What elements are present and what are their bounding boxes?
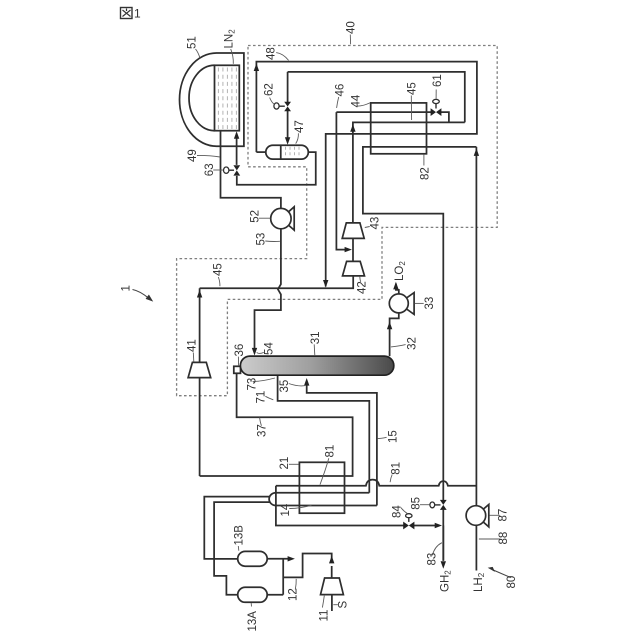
leader 32: [391, 345, 406, 347]
svg-text:45: 45: [407, 82, 419, 95]
valve 85: [440, 500, 447, 510]
leader 15: [378, 437, 387, 438]
leader 84: [401, 508, 408, 514]
leader 13A: [250, 603, 252, 606]
leader 81 upper: [320, 458, 329, 484]
wire valve 61 outlet branch: [441, 112, 449, 122]
leader 62: [270, 98, 275, 105]
arrow up on pump 33 outlet (LO2): [393, 282, 398, 290]
svg-text:S: S: [338, 601, 350, 609]
svg-text:13A: 13A: [247, 611, 259, 632]
svg-text:84: 84: [392, 505, 404, 518]
wire pipe from 13A loop into capsule 14 lower: [214, 502, 270, 595]
svg-text:71: 71: [256, 391, 268, 404]
leader 45 mid: [218, 277, 220, 286]
arrow up under pipe 44 corner: [350, 124, 355, 132]
svg-text:33: 33: [424, 297, 436, 310]
arrowheads: [197, 63, 479, 568]
arrow down on pipe 48 into separator line: [323, 280, 328, 288]
svg-text:87: 87: [498, 509, 510, 522]
svg-text:12: 12: [288, 588, 300, 601]
svg-text:41: 41: [187, 339, 199, 352]
leader 88: [479, 538, 500, 540]
svg-text:13B: 13B: [234, 525, 246, 546]
leader 63: [213, 169, 223, 171]
heat exchanger 45: [371, 103, 427, 154]
leader 85: [420, 504, 430, 506]
leader 48: [276, 53, 288, 61]
arrow up on pipe 48 riser: [254, 63, 259, 71]
wire pipe 46 downcomer and feed arrow run into 43-42 line: [336, 112, 345, 250]
wire expander 43 to 42 connector: [352, 238, 354, 261]
svg-text:48: 48: [265, 47, 277, 60]
leader 51: [196, 49, 200, 58]
svg-text:1: 1: [134, 7, 141, 21]
svg-text:85: 85: [411, 497, 423, 510]
arrow up under GH2 return line corner: [474, 148, 479, 156]
wire valve 62 to tank 47: [287, 72, 289, 138]
leader 82: [423, 155, 425, 166]
wire GH2 exit below junction: [442, 526, 444, 561]
leader S: [333, 604, 338, 606]
svg-text:21: 21: [279, 457, 291, 470]
leader 36: [237, 357, 239, 366]
wire compressor 52 outlet with crossover jog, to vessel 31 top arrow 54: [255, 229, 281, 349]
svg-text:15: 15: [388, 430, 400, 443]
valve 63: [233, 165, 240, 175]
wire 13A outlet: [267, 594, 283, 596]
adsorber 13B: [238, 551, 268, 566]
leader 73: [253, 378, 275, 381]
wire long LH2 line vertical x=476: [475, 147, 477, 571]
svg-text:83: 83: [427, 553, 439, 566]
leader 12: [294, 579, 297, 590]
wire pipe 48: riser, top run, right downcomer, west run into HX45, drop to separator line: [256, 62, 477, 287]
leader 47: [296, 133, 299, 143]
leader 71: [265, 396, 273, 400]
svg-text:47: 47: [294, 120, 306, 133]
leader 14: [289, 505, 311, 508]
svg-text:32: 32: [407, 337, 419, 350]
labels (rotated): [121, 21, 519, 631]
wire 13B outlet with arrow: [267, 558, 288, 560]
wire pipe 49: vessel 51 to compressor 52: [221, 131, 281, 209]
arrow up on pump 33 inlet: [387, 322, 392, 330]
wire pipe 35: arrow up into vessel 31, east run, down to capsule 14 bottom corner: [307, 385, 377, 506]
expander 43: [342, 223, 364, 239]
valve 84: [403, 522, 414, 530]
arrow up into vessel 51: [234, 131, 239, 139]
wire line 81: west corner, through HX21 with arches over risers, to LH2 line: [276, 480, 477, 486]
leader 54: [257, 352, 264, 353]
svg-text:14: 14: [280, 503, 292, 516]
leader 46: [337, 97, 339, 108]
arrow down into vessel 31 top (54): [252, 348, 257, 356]
tank 47 liquid dashes: [286, 147, 300, 158]
leader LN2: [231, 49, 234, 64]
pump 33: [399, 293, 414, 315]
expander 41: [188, 362, 211, 377]
svg-text:54: 54: [264, 342, 276, 355]
vessel 51 inner liquid rectangle: [215, 65, 240, 130]
wire GH2 return: arrow end, through HX45, down, east run, long down to GH2: [363, 147, 477, 561]
arrow up under separator line corner (to 41): [197, 290, 202, 298]
svg-text:63: 63: [204, 163, 216, 176]
svg-text:52: 52: [250, 210, 262, 223]
expander 42: [343, 261, 365, 276]
dashed cold box boundary 40: [177, 46, 498, 396]
expander 11: [321, 578, 344, 595]
compressor 52: [281, 207, 294, 230]
leader 44: [357, 103, 370, 106]
leader 21: [289, 463, 299, 465]
valve 61: [431, 108, 442, 116]
svg-text:80: 80: [506, 576, 518, 589]
wire line 81 west leg down and bottom run to valve 84: [276, 486, 435, 526]
svg-text:45: 45: [213, 263, 225, 276]
leader 42: [359, 277, 362, 282]
wire LO2 pump 33 inlet from vessel 31: [390, 313, 399, 356]
leader 11: [322, 596, 324, 608]
svg-text:53: 53: [256, 233, 268, 246]
leader 52: [259, 217, 270, 219]
vessel 51 inner shell arc: [189, 65, 214, 130]
svg-text:36: 36: [234, 344, 246, 357]
wire valve 63 outlet to tank 47 right side: [237, 152, 316, 185]
vessel 51 outer shell: [180, 53, 244, 146]
arrow up into vessel 31 bottom (35): [304, 378, 309, 386]
leader 13B: [237, 546, 240, 551]
leader 81 lower: [390, 475, 392, 483]
heat exchanger 21: [299, 462, 344, 513]
valve 62: [284, 102, 291, 111]
arrow east on pipe 46 feed: [345, 247, 352, 252]
wire pipe into vessel 51 bottom (from valve 63): [236, 134, 238, 165]
svg-text:43: 43: [370, 217, 382, 230]
svg-text:73: 73: [247, 378, 259, 391]
wire pipe from 13B loop into capsule 14 upper: [204, 497, 270, 559]
wire valve 62 branch: top run and downcomer to pipe 44 junction: [288, 72, 465, 123]
svg-text:62: 62: [263, 83, 275, 96]
arrow up on expander 11 outlet: [329, 556, 334, 564]
wire manifold riser x=283.2: [282, 559, 284, 595]
leader 33: [415, 302, 424, 304]
svg-text:81: 81: [325, 445, 337, 458]
wire pipe 46: west corner, through HX45 to valve 61: [336, 111, 431, 113]
tank 47 divider: [280, 145, 282, 159]
vessel 14 jacket capsule through HX21: [269, 493, 377, 506]
leader 35: [289, 384, 305, 386]
leader 87: [489, 514, 500, 516]
leader 41: [192, 353, 195, 362]
reference arrow 1: [133, 290, 154, 302]
arrow east on 13B outlet: [288, 556, 295, 561]
leader 49: [197, 155, 220, 157]
svg-text:51: 51: [187, 36, 199, 49]
wire jog line from expander 11 to manifold: [283, 554, 332, 579]
adsorber 13A: [238, 587, 268, 602]
nozzle 36 on vessel 31: [234, 366, 241, 373]
svg-text:81: 81: [391, 462, 403, 475]
svg-text:37: 37: [257, 424, 269, 437]
svg-text:88: 88: [498, 532, 510, 545]
reference arrow 80: [488, 567, 511, 578]
wire expander 42 outlet to separator feed line y=288.2: [200, 276, 354, 288]
wire LO2 pump 33 outlet: [396, 284, 399, 294]
wire pipe 71: vessel 31 bottom outlet, east run, down to capsule 14 top corner: [278, 375, 370, 493]
leader 37: [260, 418, 262, 426]
arrow down into tank 47: [285, 137, 290, 145]
svg-text:49: 49: [187, 149, 199, 162]
svg-text:44: 44: [351, 94, 363, 107]
svg-text:42: 42: [357, 281, 369, 294]
wire separator feed corner down to expander 41: [199, 288, 201, 476]
arrow down GH2 outlet: [441, 561, 446, 569]
wire tank 47 left to riser: [256, 151, 266, 153]
leader 31: [313, 344, 316, 355]
figure title 図1: [121, 7, 142, 21]
leader 83: [432, 543, 442, 556]
wire line a: 41 outlet through HX21, riser, west run 37, down to nozzle 36: [200, 373, 353, 476]
leader 40: [349, 35, 351, 45]
wire expander 11 inlet from S: [331, 595, 333, 611]
svg-text:31: 31: [310, 332, 322, 345]
leader 61: [435, 90, 437, 99]
svg-text:82: 82: [420, 167, 432, 180]
pump 87: [476, 505, 489, 527]
svg-text:40: 40: [346, 21, 358, 34]
leader 53: [265, 240, 280, 242]
label leaders: [193, 35, 500, 608]
liquid dashes in vessel 51: [218, 68, 236, 130]
valves: [224, 99, 447, 529]
tank 47: [266, 145, 309, 159]
svg-text:11: 11: [319, 610, 331, 622]
svg-text:61: 61: [432, 74, 444, 87]
svg-text:35: 35: [279, 380, 291, 393]
svg-text:1: 1: [121, 285, 133, 291]
arrow east on valve 84 line: [435, 523, 442, 528]
leader 43: [365, 227, 370, 228]
svg-text:46: 46: [335, 84, 347, 97]
leader 45 top: [410, 96, 412, 121]
wire pipe 44: west corner, through HX45, to expander 43: [353, 122, 465, 222]
